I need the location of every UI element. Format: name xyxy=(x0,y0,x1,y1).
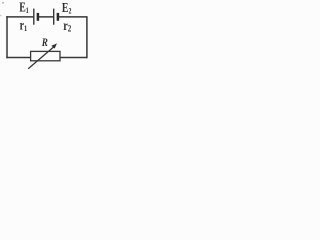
speck left edge xyxy=(0,15,1,16)
wire top-middle segment xyxy=(38,16,54,18)
rheostat arrow head xyxy=(51,43,57,48)
wire left side xyxy=(6,16,8,58)
wire right side xyxy=(86,16,88,58)
battery E1 short thick plate xyxy=(37,13,40,21)
battery E1 long plate xyxy=(33,9,35,25)
label E2 xyxy=(62,0,72,16)
svg-text:R: R xyxy=(41,37,48,49)
wire bottom-right segment xyxy=(60,57,88,59)
label r2 xyxy=(63,18,71,34)
battery E2 long plate xyxy=(53,9,55,25)
wire top-right segment xyxy=(58,16,87,18)
wire top-left segment xyxy=(6,16,34,18)
background xyxy=(0,0,99,72)
label R xyxy=(41,37,48,49)
rheostat arrow diagonal xyxy=(28,47,54,69)
rheostat R box xyxy=(31,51,60,60)
label r1 xyxy=(20,18,28,33)
battery E2 short thick plate xyxy=(57,13,60,21)
label E1 xyxy=(19,0,29,15)
speck top-left xyxy=(2,2,4,4)
wire bottom-left segment xyxy=(6,57,30,59)
